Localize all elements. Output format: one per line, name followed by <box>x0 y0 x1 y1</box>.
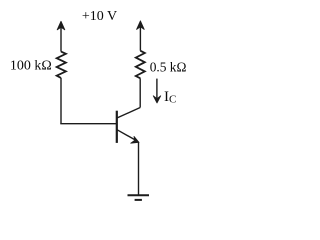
transistor Q1 emitter arrowhead <box>131 136 139 143</box>
current arrow Ic <box>156 79 158 99</box>
transistor Q1 emitter lead <box>117 130 137 141</box>
transistor Q1 base bar <box>116 111 118 143</box>
resistor R2 0.5k zigzag <box>136 51 145 79</box>
wire base (left branch to transistor base) <box>60 123 117 124</box>
transistor Q1 collector lead <box>117 108 140 118</box>
svg-text:100 kΩ: 100 kΩ <box>10 59 52 74</box>
resistor R1 100k zigzag <box>57 52 66 78</box>
wire left branch down from R1 <box>60 78 62 124</box>
svg-text:+10 V: +10 V <box>82 9 117 24</box>
wire emitter down to ground <box>138 142 140 195</box>
svg-text:IC: IC <box>164 89 176 106</box>
supply arrow right (to +10V) <box>139 27 141 51</box>
wire collector branch (R2 down to collector corner) <box>139 78 141 107</box>
ground symbol <box>128 194 150 196</box>
supply arrow left (to +10V) <box>60 27 62 52</box>
svg-text:0.5 kΩ: 0.5 kΩ <box>150 60 187 75</box>
